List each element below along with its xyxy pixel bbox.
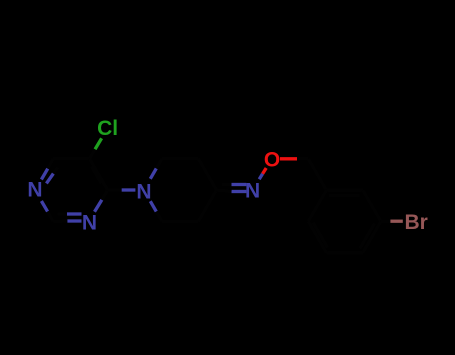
bond C2=N3 main line, N half [67, 219, 81, 222]
bond N1-C2, N half [41, 201, 47, 212]
bond C6r-C1r [308, 190, 326, 221]
bond C1r=C2r inner line [329, 194, 360, 197]
svg-text:O: O [264, 149, 280, 172]
bond C2=N3 inner line, C half [58, 212, 67, 215]
bond N(ox)-O, O half [263, 168, 267, 174]
bond C1r=C2r main line [326, 189, 362, 192]
bond C3r-Br, Br half [390, 220, 403, 223]
svg-text:N: N [27, 178, 42, 201]
bond C5-Cl, C half [90, 149, 96, 158]
bond C2=N3 main line, C half [53, 219, 67, 223]
bond N(pip)-C6p, C half [156, 212, 162, 222]
bond N(pip)-C6p, N half [150, 201, 156, 211]
bond C4-N(pip), C half [108, 188, 122, 191]
bond C5p-C6p [162, 220, 198, 223]
svg-text:N: N [82, 212, 97, 235]
bond C5r=C6r inner line [313, 223, 328, 248]
bond C4=C5 inner line [92, 167, 102, 184]
bond N1=C6 main line, C half [48, 159, 53, 169]
bond C4p=N(ox) main line, N half [232, 190, 247, 193]
bond C5r=C6r main line [308, 221, 326, 253]
bond C4-N(pip), N half [122, 188, 136, 191]
bond O-CH2, O half [280, 157, 297, 160]
bond N(pip)-C2p, N half [150, 168, 156, 178]
svg-text:N: N [245, 179, 260, 202]
bond N(pip)-C2p, C half [156, 159, 162, 169]
svg-text:Br: Br [405, 211, 428, 234]
bond C4p=N(ox) inner line, N half [232, 183, 247, 186]
bond N1=C6 inner line, C half [53, 167, 57, 173]
bond C3r-Br, C half [381, 220, 390, 223]
bond C5-C6 [53, 157, 89, 160]
bond C5-Cl, Cl half [95, 138, 102, 149]
bond N(ox)-O, N half [259, 174, 262, 179]
bond N1=C6 inner line, N half [46, 174, 53, 184]
bond C4p-C5p [198, 190, 216, 221]
bond C3r=C4r inner line [360, 224, 375, 249]
bond N3-C4, C half [102, 190, 108, 200]
svg-text:Cl: Cl [97, 117, 118, 140]
bond N1-C2, C half [48, 212, 54, 222]
bond C4=C5 main line [90, 159, 108, 190]
bond C2r-C3r [363, 190, 381, 221]
bond C4r-C5r [326, 251, 362, 254]
bond CH2-C1r [308, 159, 326, 190]
bond N1=C6 main line, N half [41, 169, 47, 180]
bond C3r=C4r main line [363, 221, 381, 253]
bond C4p=N(ox) main line, C half [217, 190, 232, 192]
bond C2=N3 inner line, N half [67, 212, 82, 215]
bond C3p-C4p [198, 159, 216, 190]
bond C2p-C3p [162, 157, 198, 160]
svg-text:N: N [136, 180, 151, 203]
bond O-CH2, C half [297, 157, 308, 160]
bond N3-C4, N half [95, 200, 102, 212]
bond C4p=N(ox) inner line, C half [222, 183, 232, 186]
